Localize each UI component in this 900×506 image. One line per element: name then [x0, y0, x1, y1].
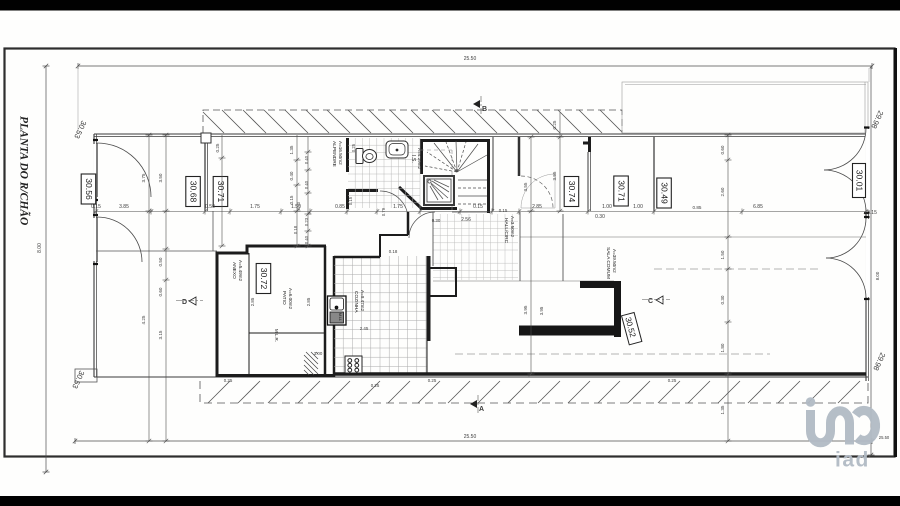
label 30.49 [657, 178, 672, 208]
svg-text:A=6.00m2: A=6.00m2 [288, 288, 293, 310]
outer walls [94, 127, 869, 381]
svg-text:30.01: 30.01 [855, 170, 865, 192]
svg-text:0.50: 0.50 [158, 257, 163, 266]
stove [345, 356, 362, 373]
svg-text:SALA COMUM: SALA COMUM [605, 247, 611, 279]
svg-text:0.50: 0.50 [205, 204, 215, 210]
svg-text:25.50: 25.50 [464, 434, 477, 440]
svg-text:3.00: 3.00 [314, 351, 323, 356]
hall side walls [520, 212, 563, 281]
partition walls top strip [201, 133, 654, 211]
svg-text:1.75: 1.75 [393, 204, 403, 210]
section marker B top [473, 96, 487, 116]
winder stair treads [425, 141, 487, 172]
svg-text:8.00: 8.00 [875, 271, 880, 280]
label 30.71 [213, 177, 228, 207]
svg-text:0.15: 0.15 [499, 208, 508, 213]
svg-text:A: A [479, 406, 484, 413]
right wall door arcs [824, 128, 866, 298]
label 30.68 [186, 177, 201, 207]
svg-text:ANEXO: ANEXO [231, 262, 237, 279]
svg-text:0.15: 0.15 [289, 195, 294, 204]
svg-text:2.85: 2.85 [532, 204, 542, 210]
main dimension row [94, 209, 868, 215]
kitchen top wall [334, 212, 408, 257]
kitchen right wall [334, 256, 866, 374]
svg-text:A=5.49m2: A=5.49m2 [238, 260, 243, 282]
svg-text:3.75: 3.75 [141, 173, 146, 182]
anexo patio walls [217, 246, 334, 377]
svg-text:0.60: 0.60 [720, 145, 725, 154]
svg-text:4.25: 4.25 [141, 315, 146, 324]
dim chain x=560 stairs [559, 112, 561, 211]
svg-text:8.00: 8.00 [37, 243, 43, 253]
wall 30.74/30.71 thin [493, 137, 591, 211]
dim left 8.00 [45, 66, 47, 472]
svg-text:3.55: 3.55 [523, 182, 528, 191]
svg-text:3.15: 3.15 [158, 330, 163, 339]
flight dashed rail [420, 150, 452, 212]
door arc terrace lower [97, 217, 142, 262]
svg-text:1.35: 1.35 [720, 405, 725, 414]
drawing frame [5, 49, 895, 457]
svg-text:I.S.: I.S. [410, 155, 416, 163]
hall kitchen wall [432, 212, 434, 266]
svg-text:30.56: 30.56 [84, 178, 94, 200]
section marker A bottom [470, 395, 484, 415]
svg-text:0.30: 0.30 [720, 295, 725, 304]
bathroom tile grid [348, 138, 420, 208]
label 30.56 [81, 174, 96, 204]
straight flight treads [452, 180, 487, 212]
svg-text:0.40: 0.40 [289, 171, 294, 180]
section marker C [642, 296, 670, 305]
svg-text:2.60: 2.60 [720, 187, 725, 196]
dim chain x=149 [148, 135, 150, 441]
svg-text:A=9.47m2: A=9.47m2 [360, 290, 365, 312]
iad logo watermark [806, 397, 876, 471]
label 30.74 [564, 177, 579, 207]
svg-text:M.LL: M.LL [338, 313, 342, 321]
svg-text:0.30: 0.30 [432, 218, 441, 223]
svg-text:25.50: 25.50 [879, 435, 890, 440]
svg-text:0.25: 0.25 [215, 143, 220, 152]
svg-text:30.72: 30.72 [259, 268, 269, 290]
svg-text:A=16.50m2: A=16.50m2 [338, 141, 343, 165]
svg-text:2.85: 2.85 [306, 297, 311, 306]
svg-text:A=3.50m2: A=3.50m2 [510, 216, 515, 238]
shower tray [424, 176, 454, 205]
dim chain x=297 [296, 135, 298, 246]
svg-text:25.50: 25.50 [464, 56, 477, 62]
svg-text:PLANTA DO R/CHÃO: PLANTA DO R/CHÃO [18, 116, 32, 225]
svg-text:1.75: 1.75 [250, 204, 260, 210]
svg-text:C: C [648, 298, 653, 305]
svg-text:1.35: 1.35 [289, 145, 294, 154]
svg-text:0.15: 0.15 [91, 204, 101, 210]
svg-text:A=4.29m2: A=4.29m2 [417, 148, 422, 170]
svg-text:0.25: 0.25 [668, 378, 677, 383]
svg-text:6.85: 6.85 [753, 204, 763, 210]
svg-text:0.60: 0.60 [158, 287, 163, 296]
svg-text:PATIO: PATIO [281, 291, 287, 305]
svg-text:1.00: 1.00 [602, 204, 612, 210]
svg-text:HALL/CIRC: HALL/CIRC [503, 218, 509, 244]
svg-text:iad: iad [835, 449, 870, 472]
wall 30.74 step [588, 137, 591, 152]
shower nook diagonal wall [399, 187, 421, 208]
bathroom walls [346, 137, 590, 213]
svg-text:0.25: 0.25 [552, 120, 557, 129]
svg-text:2.56: 2.56 [461, 217, 471, 223]
svg-text:30.71: 30.71 [216, 181, 226, 203]
terrace inner boundary [96, 250, 217, 252]
svg-text:1.00: 1.00 [633, 204, 643, 210]
svg-text:3.55: 3.55 [552, 171, 557, 180]
svg-text:1.50: 1.50 [720, 250, 725, 259]
svg-text:0.25: 0.25 [351, 143, 356, 152]
dim top 25.50 [78, 65, 872, 67]
wash basin [386, 141, 408, 158]
right wall door openings [865, 129, 869, 297]
fireplace thick walls [519, 281, 621, 337]
section marker D left [176, 297, 203, 306]
svg-text:30.71: 30.71 [617, 180, 627, 202]
terrace step rect [75, 369, 97, 382]
svg-text:0.85: 0.85 [335, 204, 345, 210]
svg-text:ALPENDRE: ALPENDRE [331, 141, 337, 167]
svg-text:0.15: 0.15 [867, 210, 877, 216]
left wall door openings [93, 144, 97, 261]
upper right terrain strip [622, 82, 868, 133]
stair core walls [420, 139, 423, 174]
door arc room 30.74 [521, 174, 555, 208]
svg-text:3.95: 3.95 [523, 305, 528, 314]
toilet [356, 149, 377, 164]
svg-text:0.18: 0.18 [389, 249, 398, 254]
dim right 8.00 [870, 66, 872, 455]
dim chain x=531 [530, 137, 532, 374]
top black band [0, 0, 900, 11]
svg-text:30.74: 30.74 [567, 181, 577, 203]
svg-text:3.85: 3.85 [119, 204, 129, 210]
svg-text:0.15: 0.15 [473, 204, 483, 210]
svg-text:2.85: 2.85 [250, 297, 255, 306]
dim chain x=728 [727, 135, 729, 441]
label 30.71 right [614, 176, 629, 206]
svg-text:0.85: 0.85 [693, 205, 702, 210]
bottom black band [0, 496, 900, 506]
kitchen sink unit [328, 296, 347, 325]
dim chain x=166 [165, 135, 167, 441]
svg-text:M.L.R.: M.L.R. [274, 329, 279, 342]
label 30.01 [853, 164, 866, 198]
svg-text:COZINHA: COZINHA [353, 291, 359, 313]
dim bottom 25.50 [75, 440, 872, 442]
svg-text:1.80: 1.80 [720, 343, 725, 352]
svg-text:30.68: 30.68 [189, 181, 199, 203]
label 30.72 [256, 264, 271, 294]
svg-text:0.25: 0.25 [371, 383, 380, 388]
bathroom door arc [380, 191, 435, 238]
svg-text:D: D [182, 299, 187, 306]
dim chain x=308 [307, 137, 309, 246]
svg-text:0.79: 0.79 [381, 207, 386, 216]
sala floor lines [433, 237, 866, 354]
hall door arc [409, 212, 435, 238]
svg-text:30.49: 30.49 [660, 182, 670, 204]
svg-text:3.50: 3.50 [158, 173, 163, 182]
svg-text:B: B [482, 106, 487, 113]
label 30.52 tilted [622, 312, 642, 344]
bottom hatched band [200, 381, 868, 403]
svg-text:A=39.50m2: A=39.50m2 [612, 249, 617, 273]
kitchen tile grid [334, 256, 427, 373]
svg-text:0.25: 0.25 [224, 378, 233, 383]
svg-text:0.15: 0.15 [348, 196, 353, 205]
patio hatch strip [304, 352, 318, 375]
hall tiles [433, 214, 518, 280]
svg-text:0.30: 0.30 [595, 214, 605, 220]
dim chain x=222 [221, 135, 223, 246]
svg-text:0.25: 0.25 [428, 378, 437, 383]
top hatched alpendre roof band [203, 110, 622, 133]
svg-text:2.45: 2.45 [360, 326, 369, 331]
svg-text:3.95: 3.95 [539, 306, 544, 315]
door arc terrace upper [97, 143, 151, 262]
